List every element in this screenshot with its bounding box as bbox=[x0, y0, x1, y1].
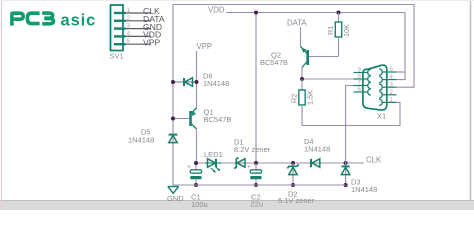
right gray edge line bbox=[470, 0, 472, 200]
diode D3 bbox=[341, 163, 349, 185]
svg-text:X1: X1 bbox=[377, 112, 386, 121]
svg-text:SV1: SV1 bbox=[110, 52, 124, 61]
wire DATA to Q2 emitter bbox=[300, 27, 302, 47]
svg-text:R1: R1 bbox=[326, 26, 335, 35]
svg-text:CLK: CLK bbox=[366, 156, 382, 165]
junction C2 bottom bbox=[254, 183, 258, 187]
svg-text:2: 2 bbox=[390, 89, 394, 96]
top faint line bbox=[0, 0, 474, 2]
svg-text:5.1V zener: 5.1V zener bbox=[278, 196, 315, 205]
wire VDD rail bbox=[226, 13, 405, 80]
SV1 pin bars bbox=[114, 13, 126, 44]
junction row D2 bbox=[291, 161, 295, 165]
junction C1 top bbox=[194, 161, 198, 165]
SV1 pin numbers bbox=[127, 7, 131, 45]
svg-text:8.2V zener: 8.2V zener bbox=[234, 145, 271, 154]
transistor Q1 bbox=[173, 108, 197, 129]
svg-text:DATA: DATA bbox=[287, 19, 307, 28]
SV1 net labels bbox=[143, 6, 165, 47]
svg-text:asic: asic bbox=[61, 11, 97, 29]
X1 right pin arcs bbox=[379, 69, 382, 106]
svg-text:LED1: LED1 bbox=[204, 150, 223, 159]
diode D4 bbox=[308, 159, 322, 168]
wire middle row bbox=[197, 162, 365, 164]
svg-text:1N4148: 1N4148 bbox=[128, 136, 154, 145]
svg-text:4: 4 bbox=[390, 74, 394, 81]
wire Q1 emitter down bbox=[196, 129, 198, 163]
junction Q1 base bbox=[171, 117, 175, 121]
junction D6 left bbox=[171, 80, 175, 84]
svg-text:10K: 10K bbox=[342, 24, 351, 37]
left pink edge line bbox=[1, 0, 3, 210]
logo PCBasic bbox=[12, 13, 54, 26]
SV1 pin wires bbox=[126, 13, 152, 44]
svg-text:R2: R2 bbox=[290, 94, 299, 103]
capacitor C1 bbox=[187, 163, 202, 185]
svg-text:1: 1 bbox=[127, 7, 131, 14]
connector X1 body bbox=[363, 65, 387, 110]
svg-text:4: 4 bbox=[127, 30, 131, 37]
wire Q2 collector down bbox=[301, 68, 303, 80]
resistor R1 bbox=[335, 13, 341, 57]
junction D3 bottom bbox=[344, 183, 348, 187]
capacitor C2 bbox=[247, 163, 262, 185]
junction Q2 collector R2 bbox=[300, 77, 304, 81]
svg-text:1N4148: 1N4148 bbox=[203, 79, 229, 88]
connector SV1 body bbox=[111, 5, 124, 51]
bottom gray bar bbox=[0, 201, 474, 211]
svg-text:5: 5 bbox=[390, 66, 394, 73]
X1 right pin numbers bbox=[390, 66, 394, 103]
svg-text:3: 3 bbox=[127, 23, 131, 30]
wire CLK to X1 pin7 bbox=[346, 86, 354, 164]
svg-text:VPP: VPP bbox=[143, 37, 160, 47]
svg-text:1N4148: 1N4148 bbox=[304, 145, 330, 154]
svg-text:GND: GND bbox=[167, 194, 184, 203]
transistor Q2 bbox=[301, 47, 339, 68]
wire VDD pin5 stub bbox=[397, 71, 406, 73]
junction row D3 bbox=[344, 161, 348, 165]
junction VDD-C2 bbox=[254, 11, 258, 15]
junction row C2 bbox=[254, 161, 258, 165]
wire bottom rail bbox=[173, 184, 346, 186]
wire R2 to X1 pin1 bbox=[302, 102, 400, 125]
diode D5 bbox=[169, 135, 178, 143]
junction D2 bottom bbox=[291, 183, 295, 187]
junction VDD-R1 bbox=[337, 11, 341, 15]
wire VPP down to D6/Q1 bbox=[196, 51, 198, 109]
svg-text:BC547B: BC547B bbox=[204, 115, 232, 124]
resistor R2 bbox=[299, 79, 305, 126]
X1 left pin stubs bbox=[354, 73, 368, 93]
svg-text:1N4148: 1N4148 bbox=[351, 185, 377, 194]
ground symbol bbox=[168, 187, 179, 194]
svg-text:1.5K: 1.5K bbox=[306, 90, 315, 105]
X1 left pin numbers bbox=[358, 67, 362, 94]
wire Q2 collector to X1 pin8 bbox=[302, 78, 354, 80]
X1 right pin stubs bbox=[382, 72, 397, 102]
svg-text:VDD: VDD bbox=[208, 6, 225, 15]
svg-text:+: + bbox=[247, 164, 251, 171]
X1 left pin arcs bbox=[368, 69, 371, 95]
svg-text:100u: 100u bbox=[191, 200, 208, 209]
svg-text:6: 6 bbox=[358, 86, 362, 93]
junction D6 right bbox=[195, 80, 199, 84]
wire VDD drop to C2 bbox=[255, 13, 257, 164]
zener D1 bbox=[233, 158, 247, 169]
led LED1 bbox=[205, 159, 221, 173]
svg-text:1: 1 bbox=[390, 97, 394, 104]
junction C1 bottom bbox=[194, 183, 198, 187]
zener D2 bbox=[287, 163, 298, 185]
svg-text:3: 3 bbox=[390, 81, 394, 88]
svg-text:+: + bbox=[187, 164, 191, 171]
svg-text:5: 5 bbox=[127, 38, 131, 45]
svg-text:BC547B: BC547B bbox=[260, 58, 288, 67]
diode D6 bbox=[173, 78, 197, 86]
svg-text:2: 2 bbox=[127, 15, 131, 22]
svg-text:22u: 22u bbox=[251, 200, 264, 209]
wire GND top rail bbox=[173, 5, 414, 186]
svg-text:VPP: VPP bbox=[197, 42, 213, 51]
